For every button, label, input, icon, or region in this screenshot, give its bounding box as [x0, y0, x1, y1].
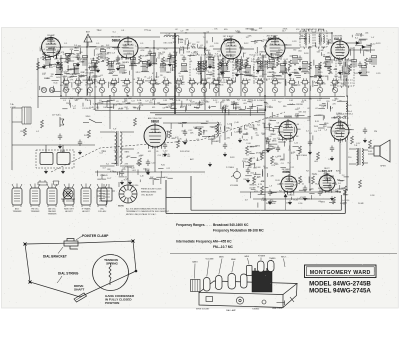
svg-text:6.8: 6.8 [80, 98, 83, 100]
svg-text:R-30 470K: R-30 470K [180, 151, 190, 153]
bandswitch wafer deck S10 [175, 78, 184, 86]
wire vertical riser x38 [37, 58, 39, 108]
svg-text:56K: 56K [248, 35, 252, 37]
bandswitch wafer deck S16 [256, 78, 265, 86]
svg-text:. . . . .: . . . . . [204, 223, 212, 227]
IF transformer T-2 can [190, 53, 213, 85]
junction j10 [174, 95, 175, 96]
small bracket sketch above cans [38, 180, 59, 185]
resistor R-2 [66, 55, 69, 63]
bandswitch coil S4 [99, 84, 104, 97]
wire mid rail d [265, 117, 310, 119]
svg-text:R-31: R-31 [250, 55, 254, 57]
svg-text:.001: .001 [262, 134, 266, 136]
dial lamp P-1 [49, 87, 54, 92]
wire vertical riser x205 [204, 33, 206, 110]
svg-text:MEG: MEG [255, 146, 260, 148]
junction j16 [224, 109, 225, 110]
component cluster u28 [360, 66, 368, 76]
svg-text:SPRING: SPRING [106, 262, 118, 266]
svg-text:1 MEG: 1 MEG [261, 200, 267, 202]
svg-text:OSC. ADJUST: OSC. ADJUST [141, 194, 154, 197]
wire vertical riser x175 heavy [174, 33, 176, 114]
svg-text:6AV6: 6AV6 [245, 255, 249, 258]
svg-text:6.8: 6.8 [332, 136, 335, 138]
capacitor C-6 [208, 53, 212, 60]
ground g42 [146, 170, 150, 175]
chassis label row top [192, 255, 287, 264]
capacitor C-4 [148, 50, 152, 57]
tube V6 6BE6 AM converter [144, 123, 166, 149]
pulley right-mid [135, 270, 138, 273]
bandswitch wafer deck S8 [149, 78, 158, 86]
svg-text:.05: .05 [289, 78, 291, 80]
svg-text:MEG: MEG [194, 52, 199, 54]
svg-text:TUNING: TUNING [252, 309, 260, 311]
resistor R-1 [42, 52, 45, 60]
resistor R-31 [176, 140, 179, 148]
bandswitch coil S13 [213, 84, 218, 97]
svg-text:L-3: L-3 [63, 100, 66, 102]
chassis power transformer block [252, 268, 272, 292]
ground g38 [246, 178, 250, 183]
capacitor C-63 [328, 184, 332, 191]
capacitor C-67 [78, 140, 82, 147]
svg-text:40MF: 40MF [60, 151, 66, 153]
bandswitch coil S9 [163, 84, 168, 97]
svg-text:PRESS SOCKET LUGS: PRESS SOCKET LUGS [141, 189, 162, 191]
filter capacitor block dashed box [36, 150, 74, 168]
wire vertical riser x87 [86, 37, 88, 96]
svg-text:Frequency Modulation 88-108 MC: Frequency Modulation 88-108 MC [213, 229, 264, 233]
svg-text:.05 MF: .05 MF [79, 62, 84, 64]
svg-text:R-31: R-31 [294, 199, 299, 201]
svg-text:470K: 470K [315, 83, 321, 85]
upper band right sparse annotation texture [350, 33, 376, 53]
speaker [368, 140, 390, 162]
svg-text:C-9: C-9 [314, 131, 317, 133]
resistor R-17 [59, 62, 62, 70]
ground g1 [42, 64, 46, 69]
svg-text:10.7: 10.7 [90, 59, 93, 61]
svg-text:AM CONV-OSC: AM CONV-OSC [148, 117, 163, 120]
arrow at bottom rail [284, 194, 287, 210]
svg-text:MEG: MEG [125, 151, 130, 153]
resistor R-6 [146, 60, 149, 68]
svg-text:470K: 470K [256, 153, 261, 155]
capacitor C-51 [183, 130, 187, 137]
wire vertical riser x290 mid [289, 139, 291, 175]
svg-text:.01: .01 [341, 53, 344, 55]
wire vertical riser x241 [240, 59, 242, 96]
bandswitch wafer deck S15 [241, 78, 250, 86]
ratio det can lower stub [338, 80, 353, 83]
svg-text:6BE6: 6BE6 [112, 39, 121, 43]
svg-text:SPKR SOCKET: SPKR SOCKET [196, 309, 210, 311]
capacitor C-13 [283, 60, 287, 67]
junction j4 [204, 48, 205, 49]
resistor R-44 [298, 176, 301, 184]
svg-text:C-40: C-40 [242, 60, 246, 62]
detector upper cluster wire stubs [240, 123, 301, 140]
bandswitch wafer deck S21 [331, 78, 340, 86]
svg-text:1 MEG: 1 MEG [343, 113, 350, 115]
svg-text:RF AMP: RF AMP [47, 34, 55, 37]
capacitor C-11 [93, 64, 97, 71]
svg-text:270: 270 [348, 60, 351, 62]
svg-text:20 MF: 20 MF [358, 203, 364, 205]
top label row wire stubs [0, 0, 1, 1]
svg-text:.05 MF: .05 MF [251, 30, 258, 32]
svg-text:220: 220 [63, 54, 66, 56]
svg-text:FM: FM [208, 107, 211, 109]
svg-text:1500: 1500 [295, 113, 299, 115]
resistor R-46 [343, 186, 346, 194]
component cluster u29 [372, 56, 377, 67]
resistor R-33 [215, 124, 218, 132]
FM antenna symbol [84, 34, 92, 47]
detector right wire stubs [278, 141, 301, 168]
svg-text:68: 68 [324, 105, 326, 107]
svg-text:METER. LINE VOLTAGE 117 V.A.C.: METER. LINE VOLTAGE 117 V.A.C. [126, 213, 157, 216]
upper band right sparse wire stubs [350, 33, 371, 56]
filter capacitor C-A [40, 153, 53, 165]
bottom return rail inner [191, 176, 341, 210]
detector chain wire stubs [243, 140, 277, 176]
svg-text:220: 220 [166, 85, 169, 87]
wire filament bus [38, 96, 345, 98]
svg-text:10.7: 10.7 [213, 138, 216, 140]
svg-text:455: 455 [215, 85, 218, 87]
resistor R-5 [138, 55, 141, 63]
svg-text:2.2: 2.2 [198, 74, 201, 76]
svg-text:C-12: C-12 [345, 118, 349, 120]
resistor R-13 [288, 60, 291, 68]
bandswitch wafer deck S17 [271, 78, 280, 86]
resistor R-30 [168, 130, 171, 138]
bandswitch wafer deck S14 [226, 78, 235, 86]
svg-text:L-8: L-8 [269, 185, 272, 187]
mid band far right wire stubs [313, 122, 354, 143]
wire left vertical edge [11, 108, 13, 170]
svg-text:S-1: S-1 [97, 29, 100, 31]
junction j7 [331, 32, 332, 33]
svg-text:10.7: 10.7 [291, 153, 294, 155]
wire left lower rail [12, 144, 95, 146]
svg-text:.01: .01 [279, 135, 282, 137]
svg-text:C-40: C-40 [147, 30, 151, 32]
junction j5 [264, 48, 265, 49]
svg-text:L-4: L-4 [272, 160, 275, 162]
mid band rail row wire stubs [168, 122, 232, 144]
svg-text:6.8: 6.8 [149, 63, 151, 65]
wire filament bus lower [60, 97, 330, 99]
svg-text:L-8: L-8 [325, 130, 328, 132]
svg-text:270: 270 [100, 57, 103, 59]
svg-text:C-40: C-40 [299, 181, 303, 183]
svg-text:S-1: S-1 [338, 183, 341, 185]
volume control R-44 pot [231, 168, 241, 182]
resistor R-38 [298, 146, 301, 154]
svg-text:L-8: L-8 [124, 70, 127, 72]
svg-text:L-8: L-8 [150, 65, 153, 67]
svg-text:FM CONV: FM CONV [111, 37, 121, 39]
svg-text:10K: 10K [125, 167, 129, 169]
svg-text:100: 100 [254, 129, 257, 131]
svg-text:C-12: C-12 [42, 73, 46, 75]
resistor R-15 [348, 64, 351, 72]
svg-text:220: 220 [226, 128, 229, 130]
svg-text:R-7: R-7 [237, 100, 240, 102]
capacitor C-15 [182, 56, 186, 63]
svg-text:6.8: 6.8 [277, 122, 279, 124]
svg-text:82K: 82K [336, 171, 340, 173]
power transformer T-9 primary winding [115, 132, 117, 164]
detector right annotation texture [277, 141, 298, 169]
svg-text:Broadcast 540-1600 KC: Broadcast 540-1600 KC [213, 223, 249, 227]
svg-text:S-1: S-1 [300, 35, 303, 37]
svg-text:MONTGOMERY WARD: MONTGOMERY WARD [310, 270, 371, 276]
ground g16 [288, 72, 292, 77]
junction j9 [264, 95, 265, 96]
svg-text:NOTE:: NOTE: [118, 206, 125, 208]
svg-text:R-26: R-26 [56, 47, 60, 49]
svg-text:.002: .002 [256, 121, 260, 123]
svg-text:L-4: L-4 [281, 50, 284, 52]
note text block [118, 206, 170, 216]
svg-text:.05 MF: .05 MF [321, 76, 328, 78]
svg-text:1 MEG: 1 MEG [336, 113, 342, 115]
wire vertical riser x347 upper [346, 59, 348, 96]
svg-text:DIAL BRACKET: DIAL BRACKET [43, 255, 67, 259]
resistor R-52 [23, 128, 26, 136]
svg-text:050: 050 [278, 55, 281, 57]
bandswitch coil S2 [75, 84, 80, 97]
bandswitch coil S18 [289, 84, 294, 97]
svg-text:C-12: C-12 [62, 90, 66, 92]
svg-text:L-8: L-8 [288, 149, 291, 151]
svg-text:C-9: C-9 [265, 138, 268, 140]
bandswitch wafer deck S18 [288, 78, 297, 86]
wire grid row V1-V2 [60, 46, 118, 48]
svg-text:22K: 22K [244, 129, 248, 131]
can K2 [30, 184, 40, 208]
ground g13 [338, 70, 342, 75]
junction j2 [153, 47, 154, 48]
resistor R-42 [252, 176, 255, 184]
svg-text:220: 220 [160, 75, 163, 77]
wire audio section rail [240, 191, 341, 193]
svg-text:MEG: MEG [272, 141, 277, 143]
svg-text:6.8: 6.8 [126, 109, 128, 111]
svg-text:117 V.A.C.: 117 V.A.C. [52, 114, 62, 117]
bandswitch wafer deck S5 [110, 78, 119, 86]
dial string path [25, 241, 136, 297]
svg-text:100: 100 [76, 99, 79, 101]
svg-text:455: 455 [221, 75, 224, 77]
svg-text:TRIMMER: TRIMMER [13, 211, 22, 213]
component cluster u11 [149, 54, 157, 64]
bandswitch coil S8 [150, 84, 155, 97]
svg-text:C-12: C-12 [290, 167, 294, 169]
AC plug [60, 117, 64, 127]
bandswitch wafer deck S4 [98, 78, 107, 86]
svg-text:.002: .002 [259, 28, 263, 30]
svg-text:1500: 1500 [314, 126, 318, 128]
svg-text:R-31: R-31 [314, 174, 318, 176]
capacitor C-66 [58, 134, 62, 141]
svg-text:R-26: R-26 [293, 185, 297, 187]
svg-text:R-31: R-31 [276, 44, 280, 46]
svg-text:T-A: T-A [10, 103, 14, 106]
pulley top-right [131, 239, 135, 243]
tube V1 6BA6 RF amp [42, 36, 61, 59]
svg-text:.02: .02 [226, 48, 228, 50]
svg-text:TRANS.: TRANS. [269, 257, 276, 260]
component cluster u13 [171, 56, 176, 64]
tube V4 6BA6 IF amp 2 [265, 36, 285, 60]
wire vertical riser x61 [60, 55, 62, 96]
bandswitch band wire stubs [62, 100, 346, 116]
component cluster u14 [180, 64, 188, 72]
resistor R-36 [260, 152, 263, 160]
svg-text:220: 220 [51, 74, 54, 76]
svg-text:LINE CORD: LINE CORD [272, 308, 283, 310]
tube V8 output 6AQ5 [331, 120, 349, 142]
bandswitch wafer deck S13 [212, 78, 221, 86]
bandswitch coil S5 [111, 84, 116, 97]
wire V4-disc row [285, 47, 300, 49]
wire vertical riser x225 lower [224, 110, 226, 140]
resistor R-18 [36, 62, 39, 70]
resistor R-23 [239, 62, 242, 70]
svg-text:R-7: R-7 [288, 163, 291, 165]
bandswitch coil S6 [124, 84, 129, 97]
bandswitch coil S15 [242, 84, 247, 97]
svg-text:ADJUST: ADJUST [65, 210, 73, 213]
capacitor C-2 [76, 54, 80, 61]
mid band far right annotation texture [306, 121, 351, 137]
ground g4 [96, 68, 100, 73]
svg-text:RECT.: RECT. [324, 168, 330, 170]
resistor R-10 [235, 60, 238, 68]
wire vertical riser x133 [132, 58, 134, 96]
upper band annotation texture [40, 45, 351, 80]
resistor R-48 [138, 158, 141, 166]
svg-text:S-1: S-1 [309, 133, 312, 135]
volume control side sketch [97, 184, 115, 205]
svg-text:.02: .02 [242, 68, 244, 70]
svg-text:SHAFT: SHAFT [74, 287, 84, 291]
svg-text:C-9: C-9 [189, 80, 192, 82]
svg-text:AM OSC: AM OSC [48, 208, 56, 211]
svg-text:1 MEG: 1 MEG [44, 78, 50, 80]
svg-text:MEG: MEG [217, 77, 222, 79]
svg-text:R-31: R-31 [258, 58, 262, 60]
bandswitch wafer deck S20 [316, 78, 325, 86]
chassis leader lines [195, 258, 286, 279]
svg-text:PM: PM [374, 131, 377, 133]
svg-text:S-1: S-1 [157, 49, 160, 51]
wire vertical riser x332 [331, 33, 333, 42]
svg-text:220: 220 [336, 49, 339, 51]
resistor R-40 [350, 136, 353, 144]
svg-text:T-4: T-4 [133, 79, 136, 81]
ground g12 [318, 74, 322, 79]
svg-text:C-12: C-12 [166, 168, 170, 170]
bandswitch coil S11 [189, 84, 194, 97]
drive shaft sketch [74, 293, 87, 302]
wire vertical riser x340 mid [339, 140, 341, 174]
svg-text:S-1: S-1 [350, 113, 353, 115]
svg-text:2.2: 2.2 [342, 175, 345, 177]
svg-text:T-4: T-4 [203, 37, 206, 39]
svg-text:100: 100 [206, 121, 209, 123]
svg-text:T-4: T-4 [224, 44, 227, 46]
svg-text:C-9: C-9 [145, 101, 148, 103]
svg-text:56K: 56K [265, 149, 269, 151]
component cluster u22 [279, 64, 287, 75]
ground g9 [220, 70, 224, 75]
chassis tube 2 [216, 276, 223, 290]
svg-text:2.2: 2.2 [270, 44, 272, 46]
svg-text:2.2: 2.2 [197, 42, 200, 44]
svg-text:R-31: R-31 [250, 125, 254, 127]
bandswitch wafer deck S3 [86, 78, 95, 86]
svg-text:T-4: T-4 [207, 31, 210, 33]
junction j12 [264, 198, 265, 199]
svg-text:.02: .02 [307, 108, 309, 110]
svg-text:R-26: R-26 [315, 121, 319, 123]
label pointer clamp [76, 234, 109, 240]
svg-text:.05: .05 [163, 77, 166, 79]
ground g36 [330, 156, 334, 161]
resistor R-21 [308, 62, 311, 70]
capacitor C-59 [246, 168, 250, 175]
svg-text:MEG: MEG [306, 199, 311, 201]
svg-text:470K: 470K [286, 172, 291, 174]
junction j8 [346, 95, 347, 96]
coil L-5 FM choke [346, 101, 347, 111]
svg-text:.002: .002 [303, 112, 307, 114]
wire vertical bus x265 [264, 60, 266, 210]
tube V5 6AL5 discriminator [331, 39, 349, 61]
power band left wire stubs [97, 151, 173, 187]
svg-text:.002: .002 [262, 55, 266, 57]
svg-text:10.7: 10.7 [44, 68, 48, 70]
svg-text:C-9: C-9 [340, 49, 343, 51]
upper mid gaps wire stubs [178, 37, 328, 50]
svg-text:220: 220 [50, 67, 53, 69]
svg-text:.002: .002 [172, 38, 176, 40]
resistor R-9 [220, 58, 223, 66]
label gang condenser [105, 294, 135, 305]
capacitor C-1 [56, 50, 60, 57]
component cluster u1 [55, 66, 63, 75]
mid band rail row annotation texture [166, 121, 239, 140]
pulley left-mid [28, 280, 32, 284]
component cluster u25 [314, 66, 322, 76]
component cluster u12 [161, 64, 166, 73]
svg-text:220: 220 [288, 194, 291, 196]
svg-text:C-9: C-9 [180, 31, 183, 33]
svg-text:120: 120 [217, 80, 220, 82]
label dial bracket [43, 247, 67, 259]
svg-text:6BA6: 6BA6 [231, 258, 236, 261]
label tension spring [104, 258, 119, 266]
svg-text:455: 455 [233, 65, 236, 67]
power band left annotation texture [99, 150, 171, 182]
